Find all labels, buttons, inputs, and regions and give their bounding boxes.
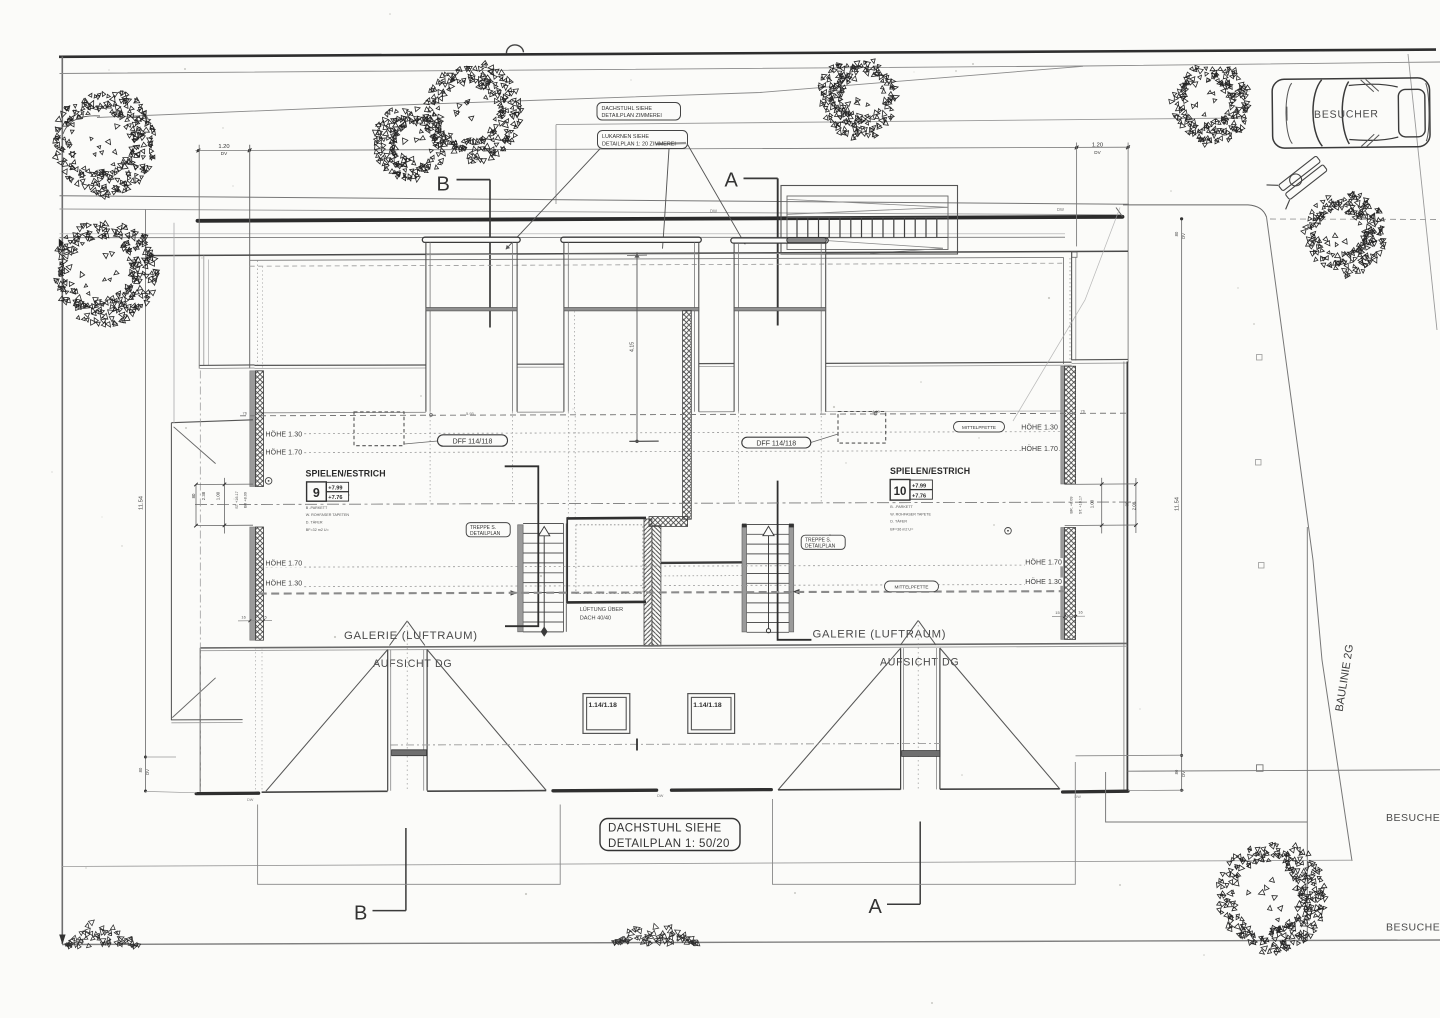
knee wall line segment between dormer 1-2 — [517, 363, 564, 365]
svg-text:15: 15 — [1055, 610, 1060, 615]
note box LUKARNEN SIEHE DETAILPLAN 1:20 — [598, 131, 688, 149]
svg-text:+7.99: +7.99 — [328, 486, 342, 492]
street boundary diagonal line — [97, 66, 1083, 117]
room tag 10 — [890, 480, 910, 501]
gable centre dotted line right — [917, 621, 919, 790]
svg-text:BF=32 m2 U=: BF=32 m2 U= — [306, 528, 329, 532]
dashed line right of driveway corner — [1270, 218, 1440, 221]
roof window box 1 — [583, 694, 630, 734]
roof hip line right unit west — [778, 648, 901, 790]
svg-text:LÜFTUNG ÜBER: LÜFTUNG ÜBER — [580, 606, 624, 613]
vertical dimension line left 11.54 — [145, 210, 147, 792]
note box DACHSTUHL SIEHE DETAILPLAN 1:50/20 — [600, 819, 740, 851]
extension line y755 right — [1076, 754, 1184, 757]
outdoor stair outer rectangle — [781, 186, 958, 255]
svg-text:5.93: 5.93 — [466, 411, 475, 416]
roof window box 2 — [688, 694, 735, 734]
street edge line 3 — [60, 236, 1066, 238]
auxiliary vertical line x174 — [173, 223, 175, 423]
line from building corner to east — [1128, 770, 1440, 771]
svg-text:A: A — [869, 896, 883, 918]
eaves thin segment 3 — [427, 790, 546, 793]
svg-text:80: 80 — [1124, 501, 1129, 506]
tree right of center — [1169, 65, 1251, 147]
svg-text:16: 16 — [1078, 610, 1083, 615]
svg-text:+7.76: +7.76 — [912, 493, 926, 499]
svg-text:DW: DW — [247, 798, 254, 802]
vent shaft cap crosshatched — [649, 517, 688, 527]
fence post squares along Baulinie — [1257, 355, 1263, 361]
svg-text:2.38: 2.38 — [201, 491, 206, 500]
street edge line 1 — [60, 196, 1130, 205]
svg-text:DV: DV — [1094, 150, 1101, 155]
svg-text:DETAILPLAN: DETAILPLAN — [805, 544, 836, 550]
svg-text:TREPPE S.: TREPPE S. — [470, 525, 496, 531]
dormer D3 side walls — [733, 243, 735, 412]
svg-text:1.20: 1.20 — [218, 144, 229, 150]
small square marker on top edge — [1072, 252, 1077, 257]
semicircular bump on top border — [506, 45, 523, 54]
building roof top outer edge — [147, 251, 1129, 255]
roof left gable edge — [199, 648, 201, 792]
fence line along driveway — [556, 118, 1245, 125]
note box TREPPE S. DETAILPLAN right — [801, 535, 845, 549]
skylight dashed rect left — [354, 412, 404, 446]
svg-text:AUFSICHT DG: AUFSICHT DG — [373, 658, 452, 670]
gable arrow mark left — [390, 621, 408, 646]
vertical boundary x1307 — [1306, 527, 1308, 941]
left wall dimension lines — [196, 483, 253, 485]
staircase left direction arrow — [543, 529, 545, 631]
oval label MITTELPFETTE upper — [954, 422, 1005, 433]
thick wall connector to right stair — [661, 561, 746, 564]
svg-text:HÖHE 1.30: HÖHE 1.30 — [266, 431, 303, 439]
svg-text:DV: DV — [145, 769, 150, 775]
thick retaining wall line — [198, 217, 1123, 221]
dimension box right unit — [773, 762, 1076, 884]
svg-text:TREPPE S.: TREPPE S. — [805, 537, 831, 543]
dotted line hoehe 1.30 lower — [261, 584, 1064, 586]
bush bottom center — [612, 923, 700, 946]
section marker A bottom — [919, 822, 921, 905]
svg-text:B -PARKETT: B -PARKETT — [306, 506, 328, 510]
section marker B bottom — [405, 828, 407, 911]
right exterior wall hatched — [1061, 366, 1065, 484]
bush bottom left — [65, 920, 141, 949]
dotted line below connector — [661, 575, 743, 577]
note box TREPPE S. DETAILPLAN left — [466, 523, 510, 537]
dormer D3 hidden wall dotted lines — [738, 412, 740, 504]
dim extension line left 1.20 — [198, 145, 200, 369]
handcart symbol — [1267, 150, 1331, 210]
label HOEHE 1.30 right upper — [1021, 423, 1059, 431]
dormer D2 party-wall dotted lines — [574, 311, 576, 412]
Mittelpfette end arrows at stairs — [511, 590, 518, 595]
svg-text:DV: DV — [1181, 233, 1186, 239]
kerb corner stub — [1116, 208, 1123, 217]
tree arc branch — [63, 116, 100, 134]
left bay bottom edge pair — [171, 719, 242, 721]
dormer D3 dark landing bar — [787, 238, 827, 243]
left bay top diagonal — [174, 427, 216, 464]
wall thickness ticks left — [238, 620, 272, 622]
svg-text:DETAILPLAN 1: 50/20: DETAILPLAN 1: 50/20 — [608, 838, 730, 850]
outdoor stair inner rectangle — [787, 196, 948, 250]
svg-text:HÖHE 1.70: HÖHE 1.70 — [266, 449, 303, 457]
svg-text:11.54: 11.54 — [139, 495, 145, 510]
label HOEHE 1.30 right lower — [1025, 578, 1063, 586]
leader to dormer 2 — [663, 149, 670, 249]
svg-text:HÖHE 1.30: HÖHE 1.30 — [1021, 424, 1058, 432]
oval label DFF 114/118 right — [742, 437, 811, 448]
left exterior wall hatched — [250, 371, 256, 487]
roof hip line left unit west — [266, 650, 388, 792]
small square marker on line — [1257, 765, 1264, 772]
svg-text:HÖHE 1.70: HÖHE 1.70 — [1021, 445, 1058, 453]
eaves thin segment 6 — [778, 788, 900, 791]
heavy dashed Mittelpfette line — [259, 591, 1065, 593]
outdoor stair lower wedge lines — [826, 241, 944, 249]
parking bay L line — [1106, 772, 1307, 822]
building right wall — [1123, 362, 1125, 790]
lower wall line segments y412 — [259, 411, 426, 414]
vent box inner dotted rectangle — [576, 525, 643, 594]
svg-text:HÖHE 1.30: HÖHE 1.30 — [266, 580, 303, 588]
svg-text:1.20: 1.20 — [1092, 142, 1103, 148]
svg-text:11.54: 11.54 — [1174, 496, 1180, 511]
tree at driveway — [1301, 191, 1386, 278]
vent box thick top edge — [567, 517, 646, 520]
svg-text:A: A — [725, 170, 739, 192]
svg-text:DETAILPLAN ZIMMEREI: DETAILPLAN ZIMMEREI — [602, 113, 662, 119]
svg-text:76: 76 — [1081, 409, 1086, 414]
galerie void wall left pair A — [387, 650, 389, 791]
dormer D1 cap — [422, 237, 520, 242]
svg-text:+7.76: +7.76 — [328, 495, 342, 501]
svg-text:ST. +10.17: ST. +10.17 — [1078, 496, 1082, 514]
svg-text:+7.99: +7.99 — [912, 484, 926, 490]
tree left second — [54, 221, 160, 328]
svg-text:DV: DV — [221, 151, 228, 156]
leader to DFF oval left — [404, 441, 437, 444]
svg-text:80: 80 — [191, 493, 196, 498]
dimension box left unit — [258, 805, 561, 885]
faint right boundary line — [1408, 54, 1437, 330]
svg-text:SPIELEN/ESTRICH: SPIELEN/ESTRICH — [890, 466, 970, 476]
vent box thick bottom edge — [567, 601, 646, 604]
party wall hatched — [683, 311, 692, 520]
dormer D3 front wall bar — [734, 308, 826, 311]
tree center — [818, 59, 899, 140]
staircase right direction arrow — [768, 529, 770, 629]
label HOEHE 1.30 left upper — [265, 430, 303, 438]
note box DACHSTUHL SIEHE DETAILPLAN ZIMMEREI — [597, 103, 681, 121]
svg-text:MITTELPFETTE: MITTELPFETTE — [962, 425, 996, 430]
svg-text:B: B — [437, 174, 450, 196]
sheet left border line — [61, 57, 63, 945]
knee wall line segment between dormer 2-3 — [699, 363, 734, 365]
svg-text:80: 80 — [1174, 769, 1179, 774]
faint leader to Mittelpfette — [1013, 208, 1120, 422]
survey circle right — [1005, 528, 1012, 535]
dormer D1 front wall bar — [426, 308, 517, 311]
inner edge corner vertical — [1063, 257, 1065, 364]
svg-text:80: 80 — [1174, 231, 1179, 236]
label HOEHE 1.70 left upper — [265, 448, 303, 456]
tree bottom right — [1217, 842, 1328, 955]
left annex outline — [203, 256, 205, 366]
vent shaft wall hatched — [644, 519, 652, 646]
svg-text:MITTELPFETTE: MITTELPFETTE — [895, 585, 929, 590]
leader to dormer 1 — [506, 149, 600, 250]
dashed inner roof line — [250, 263, 1064, 266]
car front windscreen — [1398, 89, 1425, 137]
svg-text:BR +8.09: BR +8.09 — [244, 492, 248, 508]
svg-text:D. TÄFER: D. TÄFER — [306, 521, 323, 525]
gable centre dotted line left — [406, 621, 408, 790]
label HOEHE 1.70 right upper — [1021, 445, 1059, 453]
stairwell dark edge right — [778, 481, 812, 640]
svg-text:HÖHE 1.70: HÖHE 1.70 — [266, 560, 303, 568]
dormer D1 interior roof line — [426, 253, 517, 255]
vent box left edge — [566, 517, 568, 603]
galerie void wall right pair D — [936, 648, 938, 789]
svg-text:LUKARNEN SIEHE: LUKARNEN SIEHE — [602, 134, 649, 140]
label HOEHE 1.70 right lower — [1025, 558, 1063, 566]
svg-text:10: 10 — [894, 486, 907, 498]
left bay outline — [170, 423, 172, 721]
outdoor stair tread top line — [787, 216, 949, 218]
label HOEHE 1.70 left lower — [265, 559, 303, 567]
scribble over last word — [656, 143, 686, 144]
left border bottom arrowhead — [59, 935, 65, 945]
eaves thick segment 5 — [672, 788, 772, 792]
outdoor stair upper wedge lines — [788, 199, 949, 207]
svg-text:D. TÄFER: D. TÄFER — [890, 520, 907, 524]
roof hip line left unit east — [427, 650, 546, 791]
dash-dot building axis — [195, 502, 1136, 505]
skylight dimension dash line — [390, 744, 940, 746]
label HOEHE 1.30 left lower — [265, 579, 303, 587]
dormer D2 side walls — [563, 242, 565, 411]
svg-text:BESUCHER: BESUCHER — [1386, 812, 1440, 824]
svg-text:1.00: 1.00 — [216, 491, 221, 500]
dormer D2 cap — [561, 237, 702, 242]
eaves thick segment 4 — [553, 789, 657, 793]
svg-text:DW: DW — [657, 794, 664, 798]
dormer D1 hidden wall dotted lines — [429, 412, 431, 504]
room tag 9 — [307, 482, 327, 501]
dormer D2 front wall bar — [564, 308, 699, 311]
sheet top border line — [59, 50, 1436, 57]
galerie void wall left pair B — [423, 649, 425, 790]
visitor car body — [1272, 78, 1430, 148]
Baulinie 2G boundary line — [1267, 217, 1353, 861]
car vent diagonals — [1361, 80, 1374, 92]
outdoor stair tread bottom line — [787, 237, 949, 239]
svg-text:HÖHE 1.30: HÖHE 1.30 — [1025, 578, 1062, 586]
extension line y790 right — [1128, 789, 1184, 791]
svg-text:W. ROHFASER TAPETE: W. ROHFASER TAPETE — [890, 512, 931, 516]
fence line end connector — [555, 125, 557, 204]
gable arrow mark right — [901, 620, 919, 645]
svg-text:BR. +8.09: BR. +8.09 — [1069, 497, 1073, 514]
dotted wall projection below left hatch — [255, 648, 257, 790]
dormer D1 side walls — [425, 242, 427, 411]
eaves thick segment 1 — [196, 792, 258, 796]
skylight dashed rect right — [838, 412, 886, 444]
dimension line 4.15 in dormer D2 — [636, 252, 638, 441]
svg-text:76: 76 — [243, 411, 248, 416]
street edge line 2 — [60, 209, 1122, 215]
roof hip line right unit east — [940, 648, 1060, 789]
svg-text:DETAILPLAN: DETAILPLAN — [470, 531, 501, 537]
eaves thin segment 2 — [262, 790, 388, 793]
stairwell dark edge left — [505, 466, 539, 626]
survey circle left — [265, 478, 272, 485]
dormer D2 interior roof line — [564, 253, 699, 255]
svg-text:DW: DW — [710, 209, 717, 214]
dormer D3 cap — [731, 238, 828, 243]
kerb line to driveway corner — [1123, 205, 1267, 217]
svg-text:1.14/1.18: 1.14/1.18 — [589, 702, 618, 709]
dotted line hoehe 1.70 upper — [261, 450, 1064, 452]
svg-text:W. ROHFASER TAPETEN: W. ROHFASER TAPETEN — [306, 513, 350, 517]
car front edge line — [1426, 83, 1430, 141]
svg-text:HÖHE 1.70: HÖHE 1.70 — [1025, 559, 1062, 567]
svg-text:DACH 40/40: DACH 40/40 — [580, 616, 611, 622]
dotted inner verticals at west wall — [257, 261, 259, 368]
svg-text:BESUCHER: BESUCHER — [1386, 922, 1440, 934]
dimension line 1.20 DV (full width) — [196, 147, 1131, 150]
vertical dimension line right 11.54 — [1181, 219, 1183, 791]
svg-text:GALERIE (LUFTRAUM): GALERIE (LUFTRAUM) — [813, 629, 947, 641]
valley crossbar left — [392, 750, 427, 756]
svg-text:BF=36 m2 U=: BF=36 m2 U= — [890, 527, 913, 531]
wall thickness ticks right — [1052, 615, 1085, 617]
building roof top inner edge — [250, 257, 1064, 260]
tree top-center small — [373, 107, 447, 182]
svg-text:2.08: 2.08 — [1131, 501, 1136, 510]
tree top-left — [53, 91, 156, 200]
dotted corner vertical — [1069, 258, 1071, 363]
svg-text:BESUCHER: BESUCHER — [1314, 108, 1379, 121]
svg-text:GALERIE (LUFTRAUM): GALERIE (LUFTRAUM) — [344, 630, 478, 642]
sheet bottom border line — [62, 940, 1440, 945]
tiny circles on dashed line — [430, 414, 433, 417]
staircase left treads — [523, 524, 563, 632]
staircase left right rail — [563, 524, 565, 632]
building top-right corner step — [1071, 251, 1073, 360]
knee wall line segment left — [255, 364, 426, 366]
car roof outline — [1349, 84, 1398, 88]
eaves thick segment 8 — [1063, 790, 1128, 794]
svg-text:15: 15 — [262, 615, 267, 620]
svg-text:1.14/1.18: 1.14/1.18 — [693, 702, 722, 709]
dim extension line right 1.20 — [1076, 143, 1078, 247]
svg-text:ST +16.17: ST +16.17 — [235, 491, 239, 509]
svg-text:9: 9 — [313, 486, 320, 500]
svg-text:DACHSTUHL SIEHE: DACHSTUHL SIEHE — [602, 106, 653, 112]
car bonnet lines — [1286, 83, 1293, 144]
valley crossbar right — [902, 751, 940, 757]
staircase right gray rails — [742, 525, 747, 632]
street boundary upper wedge line — [60, 62, 1440, 74]
svg-text:B: B — [354, 903, 367, 925]
dashed line y415 — [240, 413, 1128, 416]
svg-text:DV: DV — [1181, 771, 1186, 777]
svg-text:16: 16 — [241, 615, 246, 620]
long horizontal line y862 — [62, 860, 1351, 866]
dash-dot line through bay — [199, 371, 201, 791]
car rear window band — [1313, 80, 1323, 147]
leader to dormer 3 — [687, 144, 745, 245]
galerie void wall right pair C — [900, 648, 902, 790]
staircase left gray rail — [518, 525, 523, 632]
svg-text:DACHSTUHL SIEHE: DACHSTUHL SIEHE — [608, 823, 722, 835]
svg-text:B. -PARKETT: B. -PARKETT — [890, 505, 913, 509]
svg-text:80: 80 — [138, 767, 143, 772]
dotted line hoehe 1.70 lower — [261, 565, 1064, 567]
dormer D3 interior roof line — [734, 253, 826, 255]
tree top-center big — [423, 61, 524, 164]
section line A — [777, 178, 779, 325]
svg-text:SPIELEN/ESTRICH: SPIELEN/ESTRICH — [306, 469, 386, 479]
left border tick triangle — [59, 239, 64, 248]
knee wall line segment right — [826, 362, 1072, 363]
oval label DFF 114/118 left — [438, 435, 508, 446]
oval label MITTELPFETTE lower — [885, 581, 939, 592]
left bay bottom diagonal — [172, 678, 215, 718]
svg-text:DFF 114/118: DFF 114/118 — [756, 441, 796, 448]
staircase right treads — [747, 525, 789, 633]
dotted line hoehe 1.30 upper — [261, 432, 1064, 434]
outdoor stair treads — [797, 218, 937, 238]
street edge line 3a — [60, 233, 1066, 235]
svg-text:4.15: 4.15 — [630, 342, 636, 352]
section line B — [489, 180, 491, 328]
right wall dimension lines — [1065, 483, 1137, 486]
roof top edge line pair — [200, 643, 1127, 648]
leader to DFF oval right — [811, 434, 838, 443]
eaves thin segment 7 — [940, 788, 1060, 790]
svg-text:DW: DW — [1057, 207, 1064, 212]
svg-text:1.00: 1.00 — [1089, 499, 1094, 508]
svg-text:DFF 114/118: DFF 114/118 — [453, 438, 493, 445]
